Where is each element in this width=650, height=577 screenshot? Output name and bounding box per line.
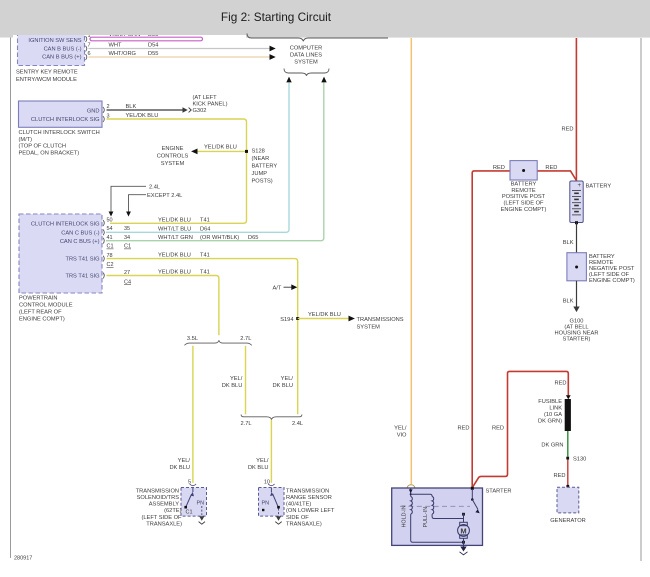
- svg-text:CAN C BUS (+): CAN C BUS (+): [60, 239, 100, 245]
- labels on PCM row 1 wire: [158, 217, 210, 223]
- svg-text:TRANSAXLE): TRANSAXLE): [146, 521, 182, 527]
- svg-text:ENTRY/WCM MODULE: ENTRY/WCM MODULE: [16, 77, 77, 83]
- svg-text:TRS T41 SIG: TRS T41 SIG: [65, 274, 99, 280]
- wire YEL/DK BLU 3.5L branch down to solenoid assembly: [169, 346, 192, 483]
- svg-text:SYSTEM: SYSTEM: [294, 60, 318, 66]
- engine split brace 3.5L/2.7L: [185, 336, 252, 346]
- svg-text:2.7L: 2.7L: [240, 336, 251, 342]
- 2.4L option pointer: [109, 184, 160, 216]
- svg-text:DK BLU: DK BLU: [248, 465, 269, 471]
- svg-text:YEL/: YEL/: [256, 458, 269, 464]
- splice S128: [245, 148, 277, 184]
- PCM connector labels C1 C1: [107, 244, 132, 250]
- wire WHT/LT BLU vertical from computer data lines to PCM pin 35: [106, 82, 289, 232]
- ground G302: [183, 95, 228, 114]
- svg-text:YEL/DK BLU: YEL/DK BLU: [158, 253, 191, 259]
- pin 3 bracket (clutch interlock sig): [103, 113, 110, 122]
- starter pull-in coil: [411, 494, 434, 527]
- arrow to engine controls system: [191, 149, 197, 155]
- svg-text:C1: C1: [186, 510, 193, 516]
- svg-text:(AT BELL: (AT BELL: [564, 324, 588, 330]
- svg-text:TRANSMISSION: TRANSMISSION: [286, 488, 329, 494]
- svg-text:DK BLU: DK BLU: [272, 383, 293, 389]
- svg-text:WHT/LT GRN: WHT/LT GRN: [158, 235, 193, 241]
- svg-text:YEL/DK BLU: YEL/DK BLU: [204, 144, 237, 150]
- svg-text:G100: G100: [570, 318, 584, 324]
- up-arrow on wht/lt blu branch: [286, 77, 291, 83]
- wire WHT/LT GRN vertical from computer data lines to PCM pin 34: [106, 82, 324, 240]
- clutch interlock switch: [19, 101, 103, 127]
- wire YEL/DK BLU from S194 down to merge (2.4L): [272, 320, 297, 414]
- over-brace above computer data lines system: [247, 34, 388, 42]
- svg-text:BLK: BLK: [563, 240, 574, 246]
- pin 7 bracket (can b bus -): [86, 43, 91, 52]
- A/T pointer: [273, 284, 298, 291]
- wire YEL/DK BLU from TRS T41 SIG pin 78 down to S194: [107, 253, 298, 319]
- svg-text:CLUTCH INTERLOCK SWITCH: CLUTCH INTERLOCK SWITCH: [19, 130, 100, 136]
- starter solenoid switch: [471, 489, 480, 513]
- svg-text:JUMP: JUMP: [252, 171, 268, 177]
- PCM pins 54 / 35 bracket: [103, 226, 130, 235]
- transmission solenoid/trs assembly: [181, 479, 207, 516]
- header bar: [0, 0, 650, 38]
- svg-text:POSTS): POSTS): [252, 179, 273, 185]
- svg-text:RED: RED: [493, 165, 505, 171]
- svg-text:2.7L: 2.7L: [241, 421, 252, 427]
- svg-text:T41: T41: [200, 253, 210, 259]
- svg-text:HOUSING NEAR: HOUSING NEAR: [555, 331, 599, 337]
- starter B+ terminal: [471, 487, 474, 490]
- clutch switch caption: [19, 130, 100, 156]
- positive post caption: [501, 182, 547, 213]
- svg-text:YEL/DK BLU: YEL/DK BLU: [158, 270, 191, 276]
- solenoid assembly caption: [136, 488, 182, 527]
- svg-text:RED: RED: [492, 426, 504, 432]
- svg-text:T41: T41: [200, 217, 210, 223]
- svg-text:(OR WHT/BLK): (OR WHT/BLK): [200, 235, 239, 241]
- pin 1 bracket (ignition sw sens): [86, 33, 91, 42]
- svg-text:BATTERY: BATTERY: [586, 184, 612, 190]
- svg-text:CONTROL MODULE: CONTROL MODULE: [19, 302, 73, 308]
- wire BLK from battery negative to remote negative post: [563, 221, 578, 253]
- svg-text:S130: S130: [573, 456, 586, 462]
- wire RED battery positive feed to starter (via remote post): [457, 171, 576, 488]
- node: ENGINE CONTROLS SYSTEM: [157, 146, 189, 167]
- svg-text:2.4L: 2.4L: [292, 421, 303, 427]
- starter motor M: [458, 522, 470, 538]
- svg-text:CLUTCH INTERLOCK SIG: CLUTCH INTERLOCK SIG: [31, 117, 100, 123]
- svg-text:WHT/LT BLU: WHT/LT BLU: [158, 226, 191, 232]
- node: COMPUTER DATA LINES SYSTEM: [290, 46, 323, 66]
- svg-text:STARTER: STARTER: [486, 489, 512, 495]
- svg-text:ENGINE COMPT): ENGINE COMPT): [501, 207, 547, 213]
- svg-text:GND: GND: [87, 108, 100, 114]
- svg-text:RED: RED: [561, 127, 573, 133]
- ground G100: [555, 307, 599, 343]
- svg-text:41: 41: [107, 235, 113, 241]
- wire YEL/DK BLU 2.7L branch down to merge: [222, 346, 246, 415]
- svg-text:S194: S194: [280, 317, 293, 323]
- svg-text:DK GRN: DK GRN: [541, 442, 563, 448]
- svg-text:(AT LEFT: (AT LEFT: [193, 95, 218, 101]
- svg-text:CLUTCH INTERLOCK SIG: CLUTCH INTERLOCK SIG: [31, 222, 100, 228]
- fusible link (10 GA DK GRN): [538, 399, 571, 431]
- svg-text:RED: RED: [553, 473, 565, 479]
- svg-text:TRANSMISSIONS: TRANSMISSIONS: [357, 317, 404, 323]
- ground under range sensor: [275, 516, 281, 524]
- svg-text:2.4L: 2.4L: [149, 184, 160, 190]
- svg-text:(10 GA: (10 GA: [544, 412, 562, 418]
- svg-text:ENGINE COMPT): ENGINE COMPT): [589, 278, 635, 284]
- svg-text:CAN C BUS (-): CAN C BUS (-): [61, 231, 99, 237]
- transmission range sensor: [259, 479, 285, 516]
- svg-text:2: 2: [107, 104, 110, 110]
- svg-text:D65: D65: [248, 235, 258, 241]
- svg-text:3.5L: 3.5L: [187, 336, 198, 342]
- starter ground junction: [462, 541, 465, 544]
- battery: [570, 181, 583, 223]
- svg-text:REMOTE: REMOTE: [511, 188, 536, 194]
- PCM pin 27 bracket: [103, 270, 130, 278]
- PCM pin 50 bracket: [103, 217, 113, 226]
- PCM caption: [19, 295, 73, 322]
- svg-text:(LEFT REAR OF: (LEFT REAR OF: [19, 309, 62, 315]
- powertrain control module: [19, 214, 102, 293]
- svg-text:RANGE SENSOR: RANGE SENSOR: [286, 495, 332, 501]
- sentry module caption: [16, 70, 78, 83]
- battery remote negative post: [567, 253, 587, 281]
- svg-text:(62TE): (62TE): [164, 508, 181, 514]
- svg-text:YEL/: YEL/: [281, 376, 294, 382]
- svg-text:BATTERY: BATTERY: [511, 182, 537, 188]
- ground under solenoid assembly: [199, 516, 205, 524]
- wire WHT (can b bus -): [89, 43, 270, 49]
- under-brace of computer data lines system: [284, 69, 329, 76]
- svg-text:SOLENOID/TRS: SOLENOID/TRS: [137, 495, 180, 501]
- wire hold-in coil bottom to motor ground run: [411, 514, 464, 542]
- wire pull-in coil to motor feed junction: [432, 514, 463, 518]
- svg-text:7: 7: [88, 43, 91, 49]
- svg-text:50: 50: [107, 217, 113, 223]
- svg-text:STARTER): STARTER): [563, 337, 591, 343]
- svg-text:M: M: [460, 526, 466, 535]
- arrow into computer data lines (wht): [270, 46, 276, 52]
- node: TRANSMISSIONS SYSTEM: [357, 317, 404, 331]
- svg-text:WHT: WHT: [109, 43, 122, 49]
- svg-text:+: +: [578, 183, 582, 189]
- starter hold-in coil: [402, 488, 413, 528]
- svg-text:EXCEPT 2.4L: EXCEPT 2.4L: [147, 193, 182, 199]
- wire YEL/DK BLU from S128 to engine controls system: [198, 144, 247, 151]
- svg-text:CAN B BUS (+): CAN B BUS (+): [42, 55, 81, 61]
- starter: [392, 488, 512, 545]
- pin 2 bracket (gnd): [103, 104, 110, 113]
- svg-text:DK GRN): DK GRN): [538, 418, 562, 424]
- svg-text:TRS T41 SIG: TRS T41 SIG: [65, 256, 99, 262]
- svg-text:C1: C1: [124, 244, 131, 250]
- negative post caption: [589, 254, 635, 284]
- svg-text:YEL/DK BLU: YEL/DK BLU: [308, 312, 341, 318]
- svg-text:WHT/ORG: WHT/ORG: [109, 51, 137, 57]
- svg-text:D54: D54: [148, 43, 158, 49]
- merge brace 2.7L/2.4L: [241, 415, 304, 428]
- svg-text:34: 34: [124, 235, 130, 241]
- PCM pins 41 / 34 bracket: [103, 235, 130, 244]
- svg-text:54: 54: [107, 226, 113, 232]
- range sensor caption: [286, 488, 335, 527]
- svg-text:C4: C4: [124, 279, 131, 285]
- svg-text:T41: T41: [200, 270, 210, 276]
- svg-text:SIDE OF: SIDE OF: [286, 515, 309, 521]
- svg-text:(TOP OF CLUTCH: (TOP OF CLUTCH: [19, 144, 67, 150]
- svg-text:A/T: A/T: [273, 285, 282, 291]
- wire RED from starter B+ up over to fusible link: [473, 371, 569, 486]
- svg-text:D64: D64: [200, 226, 210, 232]
- svg-text:(NEAR: (NEAR: [252, 156, 270, 162]
- svg-text:BATTERY: BATTERY: [252, 164, 278, 170]
- svg-text:RED: RED: [545, 165, 557, 171]
- svg-text:ENGINE: ENGINE: [162, 146, 184, 152]
- svg-text:35: 35: [124, 226, 130, 232]
- svg-text:Fig 2: Starting Circuit: Fig 2: Starting Circuit: [221, 10, 332, 24]
- sentry key remote entry/wcm module: [18, 26, 85, 66]
- svg-text:S128: S128: [252, 148, 265, 154]
- wire RED from top down to battery positive: [561, 38, 576, 181]
- svg-text:LINK: LINK: [549, 405, 562, 411]
- svg-text:SENTRY KEY REMOTE: SENTRY KEY REMOTE: [16, 70, 78, 76]
- svg-text:DK BLU: DK BLU: [169, 465, 190, 471]
- svg-text:BLK: BLK: [563, 299, 574, 305]
- svg-text:RED: RED: [457, 426, 469, 432]
- wire WHT/ORG (can b bus +): [89, 51, 270, 57]
- starter linkage dashed line: [400, 505, 470, 507]
- wire WHT/LT BLU PCM pin 35 row labels: [158, 226, 210, 232]
- wire RED from S130 to generator: [553, 460, 567, 487]
- wire DK GRN from fusible link to S130: [541, 431, 567, 457]
- diagram left border: [10, 36, 12, 558]
- svg-text:DATA LINES: DATA LINES: [290, 53, 322, 59]
- svg-text:PN: PN: [197, 501, 205, 507]
- svg-text:POSITIVE POST: POSITIVE POST: [502, 194, 546, 200]
- EXCEPT 2.4L option pointer: [126, 193, 182, 217]
- svg-text:KICK PANEL): KICK PANEL): [193, 101, 228, 107]
- svg-text:POWERTRAIN: POWERTRAIN: [19, 295, 57, 301]
- svg-text:(LEFT SIDE OF: (LEFT SIDE OF: [141, 515, 182, 521]
- svg-text:GENERATOR: GENERATOR: [550, 518, 586, 524]
- connector bump at starter yel/vio entry: [407, 485, 415, 488]
- svg-text:(LEFT SIDE OF: (LEFT SIDE OF: [503, 201, 544, 207]
- svg-text:TRANSMISSION: TRANSMISSION: [136, 488, 179, 494]
- svg-text:6: 6: [88, 51, 91, 57]
- svg-text:(40/41TE): (40/41TE): [286, 502, 311, 508]
- svg-text:YEL/: YEL/: [230, 376, 243, 382]
- wire YEL/DK BLU merged down to range sensor: [248, 420, 271, 483]
- wire BLK from negative post to G100: [563, 281, 577, 307]
- svg-text:YEL/: YEL/: [394, 426, 407, 432]
- generator: [550, 485, 586, 524]
- pin 6 bracket (can b bus +): [86, 51, 91, 60]
- svg-text:ASSEMBLY: ASSEMBLY: [149, 502, 179, 508]
- arrow into fusible link: [566, 395, 571, 399]
- starter ground: [460, 547, 468, 555]
- svg-text:G302: G302: [193, 108, 207, 114]
- svg-text:SYSTEM: SYSTEM: [357, 325, 381, 331]
- svg-text:TRANSAXLE): TRANSAXLE): [286, 521, 322, 527]
- svg-text:CAN B BUS (-): CAN B BUS (-): [44, 46, 82, 52]
- svg-text:VIO: VIO: [397, 433, 407, 439]
- svg-text:IGNITION SW SENS: IGNITION SW SENS: [28, 38, 81, 44]
- wire motor to starter ground: [463, 538, 465, 546]
- battery remote positive post: [510, 161, 537, 180]
- svg-text:(M/T): (M/T): [19, 137, 33, 143]
- svg-text:SYSTEM: SYSTEM: [161, 161, 185, 167]
- svg-text:PULL-IN: PULL-IN: [423, 507, 429, 528]
- svg-text:PN: PN: [262, 501, 270, 507]
- arrow into computer data lines (wht/org): [270, 54, 276, 60]
- svg-text:BLK: BLK: [126, 104, 137, 110]
- wire YEL/DK BLU from S194 to transmissions system: [298, 312, 349, 319]
- wire YEL/DK BLU from TRS T41 SIG pin 27 down to engine split: [107, 270, 219, 336]
- svg-text:280917: 280917: [14, 556, 32, 562]
- svg-text:HOLD-IN: HOLD-IN: [402, 505, 408, 527]
- wire VIO/LT GRN highlighted (ignition sw sens): [90, 32, 203, 41]
- svg-text:COMPUTER: COMPUTER: [290, 46, 323, 52]
- svg-text:FUSIBLE: FUSIBLE: [538, 399, 562, 405]
- svg-text:PEDAL, ON BRACKET): PEDAL, ON BRACKET): [19, 150, 80, 156]
- wire BLK from gnd pin to G302: [107, 104, 183, 110]
- svg-text:ENGINE COMPT): ENGINE COMPT): [19, 316, 65, 322]
- arrow into transmissions system: [349, 316, 355, 322]
- wire YEL/DK BLU from clutch interlock sig via S128 down to PCM pin 50: [107, 113, 247, 223]
- svg-text:YEL/: YEL/: [178, 458, 191, 464]
- svg-text:D55: D55: [148, 51, 158, 57]
- diagram right border: [640, 38, 642, 561]
- svg-text:YEL/DK BLU: YEL/DK BLU: [126, 113, 159, 119]
- svg-text:C2: C2: [107, 262, 114, 268]
- svg-text:(ON LOWER LEFT: (ON LOWER LEFT: [286, 508, 335, 514]
- splice S194: [280, 317, 299, 323]
- wire YEL/VIO from top to starter hold-in: [394, 38, 411, 484]
- motor feed junction: [462, 513, 465, 523]
- svg-text:CONTROLS: CONTROLS: [157, 153, 189, 159]
- up-arrow on wht/lt grn branch: [321, 77, 326, 83]
- wire WHT/LT GRN PCM pin 34 row labels: [158, 235, 258, 241]
- svg-text:YEL/DK BLU: YEL/DK BLU: [158, 217, 191, 223]
- svg-text:DK BLU: DK BLU: [222, 383, 243, 389]
- svg-text:RED: RED: [554, 381, 566, 387]
- PCM pin 78 bracket: [103, 253, 113, 262]
- splice S130: [566, 456, 586, 462]
- svg-text:C1: C1: [107, 244, 114, 250]
